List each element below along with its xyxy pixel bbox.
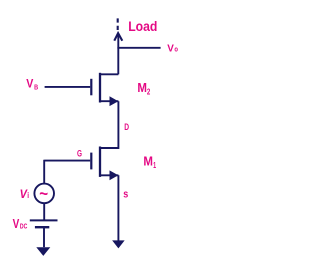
wire: up arrow barbs into load [114, 33, 122, 41]
svg-text:Load: Load [128, 18, 157, 34]
wire: VB to gate of M2 [45, 86, 91, 88]
svg-text:G: G [77, 148, 82, 158]
transistor M2 source lead [100, 101, 118, 148]
svg-text:B: B [34, 82, 38, 91]
wire: battery to ground arrow [43, 227, 45, 247]
wire: circle bottom to battery [43, 203, 45, 220]
wire: input to gate of M1 [44, 160, 90, 184]
svg-text:M: M [137, 80, 147, 95]
transistor M2 source arrow [110, 96, 119, 106]
transistor M2 gate bar [90, 79, 92, 96]
transistor M1 source lead [100, 175, 118, 240]
transistor M2 drain lead [100, 73, 118, 75]
transistor M1 source arrow [110, 170, 119, 180]
transistor M1 gate bar [90, 153, 92, 170]
ac source Vi circle [34, 184, 54, 204]
battery VDC top plate [30, 219, 58, 221]
ground arrow at M1 source [112, 240, 125, 248]
svg-text:DC: DC [20, 222, 28, 231]
wire: branch to Vo [117, 47, 160, 49]
transistor M1 drain lead [100, 148, 118, 149]
svg-text:1: 1 [153, 161, 156, 170]
transistor M2 channel bar [99, 73, 101, 103]
svg-text:~: ~ [39, 184, 48, 203]
svg-text:M: M [143, 153, 153, 168]
ground arrow at battery [36, 247, 50, 256]
svg-text:V: V [13, 216, 20, 231]
transistor M1 channel bar [99, 147, 101, 177]
svg-text:V: V [167, 44, 174, 55]
svg-text:D: D [124, 122, 129, 133]
svg-text:s: s [123, 189, 128, 201]
battery VDC bottom plate [35, 226, 49, 228]
wire: main vertical from load arrow to M2 drain [117, 34, 119, 75]
svg-text:V: V [26, 78, 33, 90]
svg-text:o: o [174, 47, 178, 54]
wire: dashed load line [117, 18, 119, 31]
svg-text:2: 2 [147, 88, 151, 97]
svg-text:i: i [27, 191, 29, 200]
